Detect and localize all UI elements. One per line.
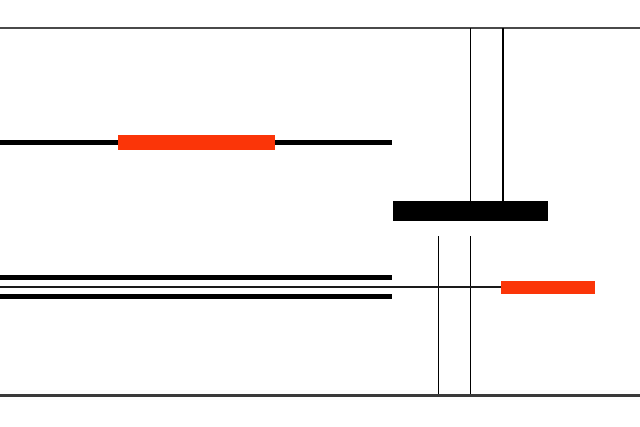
wire: right lower vertical lead to bottom rail: [470, 236, 472, 396]
wire: top supply rail: [0, 27, 640, 29]
capacitor plate: lower thick horizontal bar: [0, 294, 392, 299]
wire: right vertical lead from top rail to electrode plate: [502, 28, 504, 202]
wire: left horizontal wire (input net): [0, 140, 392, 145]
wire: left vertical lead from top rail to electrode plate: [470, 28, 472, 202]
wire: bottom ground rail: [0, 394, 640, 396]
resistor R1 (highlighted red body): [118, 135, 275, 150]
wire: left lower vertical lead to bottom rail: [438, 236, 440, 396]
electrode plate (thick black bar): [393, 201, 548, 221]
resistor R2 (highlighted red body): [501, 281, 595, 294]
wire: thin middle net crossing to resistor R2: [0, 286, 501, 288]
capacitor plate: upper thick horizontal bar: [0, 275, 392, 280]
